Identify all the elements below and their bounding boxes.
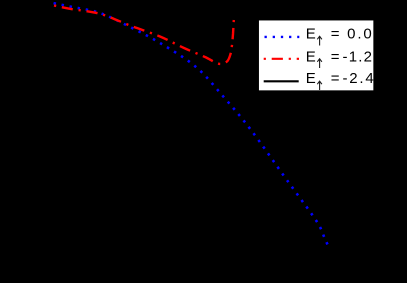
legend entry 1 label: E_up = 0.0 [306,25,374,42]
svg-text:E: E [306,25,316,42]
legend box [258,20,374,91]
svg-text:-2.4: -2.4 [343,70,376,87]
arrow subscript row 1 [317,36,322,45]
legend entry 1: blue dotted sample [265,36,300,38]
svg-text:0.0: 0.0 [347,25,374,42]
arrow subscript row 3 [317,81,322,90]
legend entry 2 label: E_up = -1.2 [306,48,373,65]
svg-text:E: E [306,48,316,65]
legend entry 2: red dash-dot sample [264,58,299,60]
svg-text:=: = [331,25,340,42]
curve E=0.0 (blue dotted) [53,3,330,249]
svg-text:E: E [306,70,316,87]
svg-text:-1.2: -1.2 [343,48,374,65]
legend entry 3 label: E_up = -2.4 [306,70,376,87]
svg-text:=: = [331,48,340,65]
curve E=-1.2 (red dash-dot) [54,6,234,64]
arrow subscript row 2 [317,59,322,68]
legend entry 3: black solid sample [264,80,299,82]
svg-text:=: = [331,70,340,87]
